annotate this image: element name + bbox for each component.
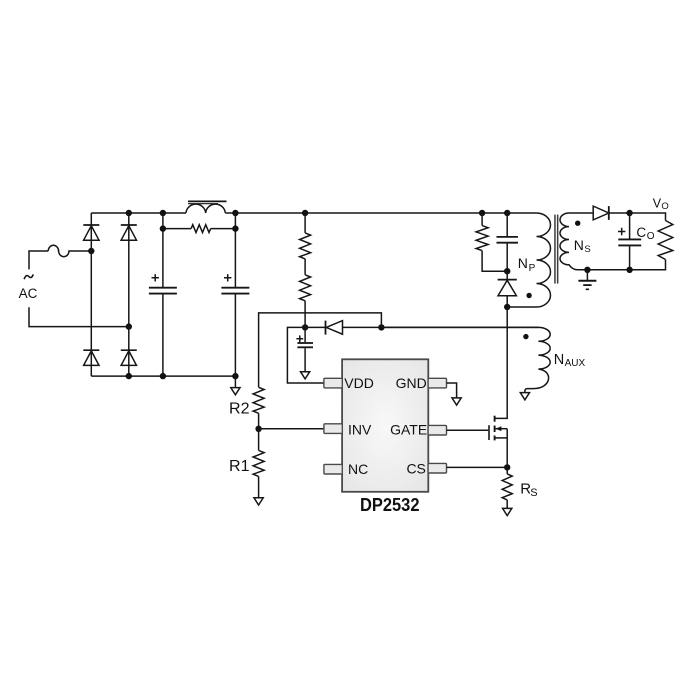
capacitor C3 (VDD)	[296, 327, 313, 371]
pin INV	[324, 422, 372, 438]
Np label	[518, 255, 536, 274]
wire AC live (upper)	[29, 251, 48, 269]
node top rail / C2	[232, 210, 238, 216]
resistor (L1 damper)	[163, 225, 236, 233]
wire R2 top jog	[259, 313, 382, 387]
ground (Rs)	[503, 508, 512, 515]
node bottom rail / C1	[160, 373, 166, 379]
svg-text:CS: CS	[406, 460, 425, 476]
diode D5 (VDD)	[305, 321, 381, 335]
node bottom rail / C2	[232, 373, 238, 379]
wire AC neutral (lower)	[29, 307, 129, 326]
transformer aux winding Naux	[381, 327, 550, 392]
svg-text:AUX: AUX	[565, 358, 586, 369]
Naux label	[554, 352, 586, 369]
transistor Q1 (MOSFET)	[489, 307, 507, 467]
svg-text:N: N	[574, 237, 584, 253]
transformer primary winding Np	[507, 213, 550, 307]
node VDD rectifier	[302, 324, 308, 330]
svg-text:DP2532: DP2532	[360, 494, 420, 515]
pin VDD	[324, 375, 374, 391]
resistor startup R4	[300, 213, 311, 259]
op-amp U1 DP2532 body	[342, 359, 428, 515]
wire GATE	[447, 429, 489, 431]
wire bottom rail	[91, 375, 235, 377]
resistor RL (load)	[630, 213, 673, 270]
svg-text:R2: R2	[229, 400, 250, 417]
node AC neutral / bridge	[126, 323, 132, 329]
capacitor C2	[221, 213, 249, 376]
node snubber bottom	[504, 268, 510, 274]
wire VDD	[287, 327, 324, 383]
wire top rail	[91, 212, 186, 214]
svg-text:GND: GND	[396, 375, 427, 391]
Naux phase dot	[523, 334, 528, 339]
diode D6 (clamp)	[498, 271, 517, 307]
node top rail / snubber C + Np	[504, 210, 510, 216]
svg-text:VDD: VDD	[344, 375, 374, 391]
diode D7 (output)	[593, 206, 629, 220]
resistor R2	[229, 387, 264, 429]
wire GND pin to ground	[447, 383, 457, 398]
pin GATE	[390, 422, 446, 438]
svg-text:N: N	[554, 352, 564, 368]
bridge diode D4	[121, 350, 137, 365]
ground (R1)	[254, 498, 263, 505]
wire secondary bottom rail	[587, 269, 629, 271]
node Co bottom	[626, 267, 632, 273]
svg-text:GATE: GATE	[390, 422, 427, 438]
wire CS	[447, 466, 508, 468]
pin GND	[396, 375, 447, 391]
node damper left	[160, 225, 166, 231]
node top rail / C1	[160, 210, 166, 216]
Ns phase dot	[575, 221, 580, 226]
pin CS	[406, 460, 446, 476]
svg-text:P: P	[529, 263, 536, 274]
ground (bottom rail)	[231, 376, 240, 395]
capacitor C1	[149, 213, 177, 376]
node CS / Rs	[504, 464, 510, 470]
capacitor Co	[618, 213, 641, 270]
bridge diode D3	[83, 350, 99, 365]
bridge diode D2	[121, 225, 137, 240]
transformer secondary winding Ns	[560, 213, 593, 270]
resistor Rs (sense)	[502, 467, 537, 508]
svg-text:O: O	[661, 201, 668, 212]
svg-text:S: S	[584, 244, 590, 255]
ground (C3)	[301, 372, 310, 379]
svg-text:INV: INV	[348, 422, 372, 438]
ground (secondary, earth)	[578, 270, 596, 290]
resistor startup R5	[300, 259, 311, 328]
svg-text:S: S	[530, 487, 537, 499]
pin NC	[324, 461, 368, 477]
node INV divider	[255, 426, 261, 432]
svg-text:AC: AC	[19, 286, 38, 301]
wire bridge right column	[128, 213, 130, 376]
svg-text:O: O	[647, 231, 655, 242]
node top rail / startup	[302, 210, 308, 216]
node bottom rail / AC col	[126, 373, 132, 379]
ground (GND pin)	[452, 398, 461, 405]
node damper right	[232, 225, 238, 231]
resistor R6 (snubber)	[476, 213, 507, 271]
Np phase dot	[526, 293, 531, 298]
svg-text:R1: R1	[229, 458, 250, 475]
Co label	[636, 225, 654, 242]
svg-text:N: N	[518, 255, 528, 271]
bridge diode D1	[83, 225, 99, 240]
wire INV	[259, 428, 325, 430]
capacitor C4 (snubber)	[497, 213, 519, 271]
transformer core	[554, 215, 558, 284]
node AC live / bridge	[88, 248, 94, 254]
ground (Naux)	[520, 393, 529, 400]
node Vo rail	[626, 210, 632, 216]
fuse F1	[48, 245, 91, 256]
node Ns bottom / gnd	[584, 267, 590, 273]
node Np bottom / drain	[504, 304, 510, 310]
wire aux sense to Naux	[381, 326, 538, 328]
node top rail / bridge right	[126, 210, 132, 216]
resistor R1	[229, 429, 264, 498]
svg-text:NC: NC	[348, 461, 368, 477]
inductor L1	[186, 201, 227, 213]
node aux sense	[378, 324, 384, 330]
svg-text:C: C	[636, 225, 646, 240]
Ns label	[574, 237, 591, 255]
wire bridge left column	[90, 213, 92, 376]
node top rail / snubber R	[479, 210, 485, 216]
Vo label	[653, 197, 669, 212]
AC source	[0, 0, 1, 1]
wire top rail (after inductor)	[225, 212, 507, 214]
